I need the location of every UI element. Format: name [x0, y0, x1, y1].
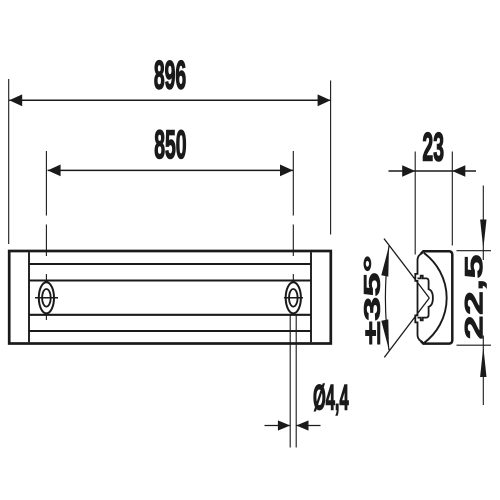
- svg-text:850: 850: [154, 123, 186, 168]
- svg-text:22,5: 22,5: [460, 254, 488, 339]
- svg-text:23: 23: [422, 125, 444, 170]
- svg-text:±35°: ±35°: [360, 255, 386, 345]
- svg-text:896: 896: [154, 53, 186, 98]
- svg-text:Ø4,4: Ø4,4: [313, 378, 349, 418]
